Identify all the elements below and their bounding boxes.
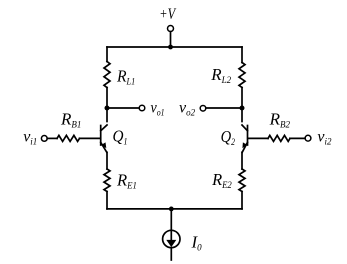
svg-text:RB1: RB1 xyxy=(60,110,81,130)
svg-text:vo2: vo2 xyxy=(179,99,196,117)
svg-text:RL2: RL2 xyxy=(210,65,231,85)
svg-text:vo1: vo1 xyxy=(151,100,165,118)
svg-text:RE2: RE2 xyxy=(211,170,232,190)
svg-text:RL1: RL1 xyxy=(116,66,135,86)
svg-text:Q2: Q2 xyxy=(221,127,236,147)
svg-text:I0: I0 xyxy=(191,233,203,253)
svg-text:+V: +V xyxy=(159,6,177,23)
svg-text:RB2: RB2 xyxy=(269,110,291,130)
svg-text:Q1: Q1 xyxy=(113,127,128,147)
svg-text:vi1: vi1 xyxy=(23,128,37,146)
svg-text:RE1: RE1 xyxy=(116,171,137,191)
svg-text:vi2: vi2 xyxy=(317,128,332,146)
